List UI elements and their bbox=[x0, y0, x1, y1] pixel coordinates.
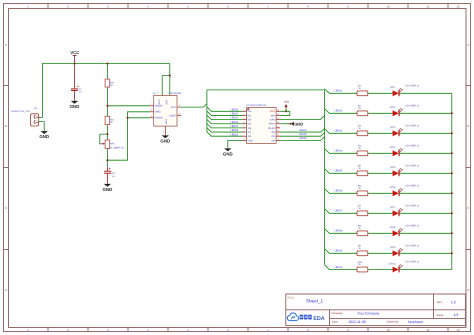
svg-text:LED-0805_R: LED-0805_R bbox=[405, 104, 419, 107]
LED LED5 bbox=[390, 164, 420, 176]
svg-text:R_3386P_EU: R_3386P_EU bbox=[110, 146, 125, 149]
svg-text:11: 11 bbox=[277, 129, 279, 132]
pin U1.4 RST bbox=[166, 92, 169, 105]
ground at U1 bbox=[160, 135, 170, 143]
ground flag at U2 CP1 (rotated) bbox=[291, 121, 303, 126]
wire: LED cathode bus bbox=[451, 93, 453, 269]
svg-text:7: 7 bbox=[151, 103, 152, 106]
power flag VCC bbox=[70, 50, 79, 63]
svg-text:GND: GND bbox=[70, 104, 80, 109]
svg-text:LED4: LED4 bbox=[390, 146, 396, 149]
pin U2.10 O4 bbox=[271, 134, 280, 139]
LED LED6 bbox=[390, 184, 420, 196]
pin U2.11 O9 bbox=[271, 129, 280, 134]
pin U1.6 THRES bbox=[150, 115, 163, 120]
node: cathode bus junction bbox=[451, 232, 453, 234]
svg-text:LED04: LED04 bbox=[231, 133, 239, 136]
node: junction R12/RP1 wiper bbox=[106, 133, 108, 135]
svg-text:LED10: LED10 bbox=[335, 266, 343, 269]
svg-text:B: B bbox=[467, 124, 469, 128]
node: cathode bus junction bbox=[451, 152, 453, 154]
svg-text:U2 CD4017BM-TB: U2 CD4017BM-TB bbox=[246, 104, 266, 107]
wire: row 10 from bundle to resistor R10 bbox=[325, 265, 357, 270]
wire: R6 to LED6 bbox=[368, 192, 392, 194]
svg-text:15: 15 bbox=[277, 113, 279, 116]
svg-text:1.0: 1.0 bbox=[451, 300, 456, 304]
svg-text:Sheet:: Sheet: bbox=[436, 314, 444, 317]
wire: fan branch to U2 pin 2 bbox=[207, 111, 243, 115]
IC U2 CD4017BM-TB bbox=[246, 104, 276, 143]
wire: LED3 to cathode bus bbox=[399, 132, 452, 134]
svg-text:LED09: LED09 bbox=[299, 137, 307, 140]
svg-text:LED-0805_R: LED-0805_R bbox=[405, 204, 419, 207]
svg-text:7: 7 bbox=[243, 134, 244, 137]
svg-text:12: 12 bbox=[456, 4, 460, 8]
node: junction TRIG/THRES bbox=[126, 117, 128, 119]
title block texts bbox=[287, 297, 458, 324]
pin U2.14 CP0 bbox=[270, 117, 280, 122]
wire: LED10 to cathode bus bbox=[399, 269, 452, 271]
svg-text:Date:: Date: bbox=[332, 321, 338, 324]
resistor R6 bbox=[357, 185, 368, 196]
wire: H1 pin1 to bus bbox=[39, 116, 43, 118]
svg-text:LED1: LED1 bbox=[390, 86, 396, 89]
wire: VCC top bus bbox=[42, 64, 169, 118]
svg-text:LED01: LED01 bbox=[335, 90, 343, 93]
svg-text:B: B bbox=[5, 124, 7, 128]
ground at C2 bbox=[103, 184, 113, 192]
wire: U2 output LED05 to bundle bbox=[280, 133, 324, 137]
node: cathode bus junction bbox=[451, 132, 453, 134]
svg-text:GND: GND bbox=[39, 134, 49, 139]
pin U2.2 O1 bbox=[243, 113, 252, 118]
node: bus junction R11 bbox=[106, 62, 108, 64]
pin U1.2 TRIG bbox=[150, 109, 161, 114]
wire: row 3 from bundle to resistor R3 bbox=[325, 129, 357, 134]
svg-text:LED02: LED02 bbox=[231, 113, 239, 116]
svg-text:TRIG: TRIG bbox=[155, 111, 161, 114]
wire: LED7 to cathode bus bbox=[399, 212, 452, 214]
svg-text:10: 10 bbox=[277, 134, 279, 137]
pin U2.4 O2 bbox=[243, 121, 252, 126]
resistor R8 bbox=[357, 225, 368, 236]
wire: MR to VDD net bbox=[280, 111, 290, 115]
wire: fan branch to U2 pin 4 bbox=[207, 119, 243, 123]
wire: RP1 wiper loop bbox=[100, 134, 108, 144]
wire: LED2 to cathode bus bbox=[399, 112, 452, 114]
svg-text:Sheet_1: Sheet_1 bbox=[306, 299, 324, 304]
node: junction RP1/C2/TRIG bbox=[106, 159, 108, 161]
svg-text:LED-0805_R: LED-0805_R bbox=[405, 184, 419, 187]
svg-text:LED3: LED3 bbox=[390, 126, 396, 129]
pin U2.12 O5-9# bbox=[268, 125, 280, 130]
pin U1.8 VCC bbox=[158, 92, 161, 105]
wire: row 2 from bundle to resistor R2 bbox=[325, 109, 357, 114]
svg-text:14: 14 bbox=[277, 117, 279, 120]
wire: row 6 from bundle to resistor R6 bbox=[325, 189, 357, 194]
pin U2.3 O0 bbox=[243, 117, 252, 122]
node: bus junction VCC flag bbox=[73, 62, 75, 64]
wire: RST drop from bus bbox=[169, 64, 171, 96]
svg-text:THRES: THRES bbox=[155, 117, 164, 120]
svg-text:LED02: LED02 bbox=[335, 110, 343, 113]
svg-text:VCC: VCC bbox=[158, 99, 161, 104]
svg-text:R11: R11 bbox=[110, 82, 115, 85]
svg-text:LED01: LED01 bbox=[231, 117, 239, 120]
svg-text:LED08: LED08 bbox=[231, 129, 239, 132]
svg-text:5: 5 bbox=[243, 125, 244, 128]
svg-text:REV: REV bbox=[437, 301, 443, 304]
wire: fan branch to U2 pin 1 bbox=[207, 107, 243, 111]
ground at H1 bbox=[39, 131, 49, 139]
wire: LED1 to cathode bus bbox=[399, 92, 452, 94]
wire: R12 to RP1 bbox=[106, 125, 108, 140]
svg-text:DISCH: DISCH bbox=[155, 105, 163, 108]
svg-text:2: 2 bbox=[243, 113, 244, 116]
svg-text:GND: GND bbox=[165, 119, 168, 125]
svg-text:LED-0805_R: LED-0805_R bbox=[405, 144, 419, 147]
wire: R2 to LED2 bbox=[368, 112, 392, 114]
pin U2.9 O8 bbox=[271, 138, 280, 143]
wire: TRIG-THRES riser bbox=[107, 112, 150, 160]
wire: LED9 to cathode bus bbox=[399, 252, 452, 254]
svg-text:A: A bbox=[467, 43, 469, 47]
wire: bus to R11 bbox=[106, 64, 108, 80]
resistor R2 bbox=[357, 105, 368, 116]
node: bus junction at RST drop bbox=[169, 75, 171, 77]
svg-text:1/1: 1/1 bbox=[454, 313, 459, 317]
svg-text:VSS: VSS bbox=[248, 139, 253, 142]
LED LED4 bbox=[390, 144, 420, 156]
pin U1.1 GND bbox=[163, 119, 168, 136]
svg-text:LED10: LED10 bbox=[388, 262, 396, 265]
connector H1 HDR-F-2.54_1x2 bbox=[11, 107, 39, 126]
svg-text:A: A bbox=[5, 43, 7, 47]
LED LED3 bbox=[390, 124, 420, 136]
LED LED8 bbox=[390, 224, 420, 236]
svg-text:kirachaan: kirachaan bbox=[408, 320, 423, 324]
svg-text:O5-9#: O5-9# bbox=[268, 127, 275, 130]
svg-text:R12: R12 bbox=[110, 118, 115, 121]
svg-text:11: 11 bbox=[426, 328, 429, 332]
svg-text:10: 10 bbox=[386, 328, 390, 332]
svg-text:EDA: EDA bbox=[313, 316, 324, 322]
resistor R5 bbox=[357, 165, 368, 176]
svg-text:1: 1 bbox=[243, 109, 244, 112]
node: cathode bus junction bbox=[451, 112, 453, 114]
svg-text:LED-0805_R: LED-0805_R bbox=[405, 124, 419, 127]
resistor R11 bbox=[105, 79, 115, 87]
svg-text:LED08: LED08 bbox=[335, 230, 343, 233]
LED LED9 bbox=[390, 244, 420, 256]
svg-text:LED06: LED06 bbox=[335, 190, 343, 193]
svg-text:GND: GND bbox=[160, 138, 170, 143]
svg-text:LED07: LED07 bbox=[335, 210, 343, 213]
svg-text:LED-0805_R: LED-0805_R bbox=[405, 164, 419, 167]
pin U2.15 MR bbox=[271, 113, 280, 118]
pin U2.6 O7 bbox=[243, 129, 252, 134]
svg-text:LED6: LED6 bbox=[390, 186, 396, 189]
ground at C1 bbox=[70, 101, 80, 109]
wire: clock top bus bbox=[207, 89, 325, 91]
svg-text:GND: GND bbox=[294, 121, 303, 126]
pin U2.8 VSS bbox=[243, 138, 254, 143]
svg-text:1: 1 bbox=[163, 130, 164, 133]
svg-text:3: 3 bbox=[179, 104, 180, 107]
wire: R5 to LED5 bbox=[368, 172, 392, 174]
svg-text:LED03: LED03 bbox=[231, 121, 239, 124]
svg-text:LED5: LED5 bbox=[390, 166, 396, 169]
pin U1.3 OUT bbox=[171, 104, 181, 109]
pin U2.1 O5 bbox=[243, 109, 252, 114]
wire: R11 to R12 bbox=[106, 87, 108, 116]
svg-text:GND: GND bbox=[103, 187, 113, 192]
svg-text:Company:: Company: bbox=[331, 312, 343, 315]
svg-text:LED-0805_R: LED-0805_R bbox=[405, 261, 419, 264]
svg-text:6: 6 bbox=[151, 115, 152, 118]
wire: DISCH horizontal bbox=[107, 105, 150, 107]
svg-text:9: 9 bbox=[278, 138, 279, 141]
svg-text:8: 8 bbox=[243, 138, 244, 141]
node: cathode bus junction bbox=[451, 252, 453, 254]
svg-text:RP1: RP1 bbox=[110, 143, 115, 146]
node: cathode bus junction bbox=[451, 172, 453, 174]
svg-text:16: 16 bbox=[277, 109, 279, 112]
svg-text:CP0: CP0 bbox=[270, 119, 275, 122]
wire: row 1 from bundle to resistor R1 bbox=[325, 89, 357, 94]
wire: 555 OUT to fan riser bbox=[181, 104, 207, 108]
wire: R8 to LED8 bbox=[368, 232, 392, 234]
wire: VCC pin drop bbox=[162, 76, 170, 96]
svg-text:LED09: LED09 bbox=[335, 250, 343, 253]
svg-text:8: 8 bbox=[158, 92, 159, 95]
svg-text:GND: GND bbox=[223, 151, 233, 156]
LED LED7 bbox=[390, 204, 420, 216]
svg-text:LED-0805_R: LED-0805_R bbox=[405, 244, 419, 247]
svg-text:12: 12 bbox=[456, 328, 460, 332]
pin U2.7 O3 bbox=[243, 134, 252, 139]
ground at U2 VSS bbox=[223, 148, 233, 156]
wire: row 4 from bundle to resistor R4 bbox=[325, 149, 357, 154]
wire: row 5 from bundle to resistor R5 bbox=[325, 169, 357, 174]
pin U1.7 DISCH bbox=[150, 103, 163, 108]
wire: fan branch to U2 pin 5 bbox=[207, 124, 243, 128]
wire: R3 to LED3 bbox=[368, 132, 392, 134]
svg-text:3: 3 bbox=[243, 117, 244, 120]
svg-text:2: 2 bbox=[151, 109, 152, 112]
pin U2.16 VDD bbox=[270, 109, 281, 114]
resistor R10 bbox=[357, 261, 368, 272]
svg-text:LED04: LED04 bbox=[335, 150, 343, 153]
resistor R7 bbox=[357, 205, 368, 216]
svg-text:RST: RST bbox=[166, 99, 169, 104]
svg-text:11: 11 bbox=[426, 4, 429, 8]
svg-text:LED06: LED06 bbox=[231, 108, 239, 111]
wire: CP1 to ground flag bbox=[280, 123, 290, 125]
svg-text:CP1#: CP1# bbox=[269, 123, 276, 126]
svg-text:LED03: LED03 bbox=[335, 130, 343, 133]
wire: U2 output LED10 to bundle bbox=[280, 128, 324, 132]
svg-text:NE555DR: NE555DR bbox=[170, 92, 181, 95]
node: junction R11/R12/DISCH bbox=[106, 105, 108, 107]
svg-text:LED9: LED9 bbox=[390, 246, 396, 249]
pin U2.13 CP1# bbox=[269, 121, 280, 126]
node: junction CP1 ground bbox=[290, 123, 292, 125]
svg-text:CONT: CONT bbox=[169, 115, 176, 118]
wire: R9 to LED9 bbox=[368, 252, 392, 254]
svg-text:LED-0805_R: LED-0805_R bbox=[405, 224, 419, 227]
wire: R4 to LED4 bbox=[368, 152, 392, 154]
wire: row 9 from bundle to resistor R9 bbox=[325, 249, 357, 254]
svg-text:+5V: +5V bbox=[283, 100, 290, 104]
wire: row 8 from bundle to resistor R8 bbox=[325, 229, 357, 234]
svg-text:2022-11-08: 2022-11-08 bbox=[349, 320, 366, 324]
LED LED2 bbox=[390, 104, 420, 116]
svg-text:VDD: VDD bbox=[270, 110, 275, 113]
wire: R7 to LED7 bbox=[368, 212, 392, 214]
wire: U2 output LED09 to bundle bbox=[280, 137, 324, 141]
svg-text:13: 13 bbox=[277, 121, 279, 124]
svg-text:4: 4 bbox=[167, 92, 168, 95]
svg-text:LED07: LED07 bbox=[231, 125, 239, 128]
pin U1.5 CONT bbox=[169, 113, 181, 118]
EasyEDA logo bbox=[287, 313, 324, 322]
node: cathode bus junction bbox=[451, 212, 453, 214]
svg-text:5: 5 bbox=[179, 113, 180, 116]
wire: left fan riser bbox=[206, 90, 208, 132]
svg-text:LED8: LED8 bbox=[390, 226, 396, 229]
wire: LED4 to cathode bus bbox=[399, 152, 452, 154]
LED LED1 bbox=[390, 84, 420, 96]
svg-text:LED2: LED2 bbox=[390, 106, 396, 109]
svg-text:LED7: LED7 bbox=[390, 206, 396, 209]
node: junction VDD/MR bbox=[285, 110, 287, 112]
capacitor C1 bbox=[71, 64, 82, 101]
node: cathode bus junction bbox=[451, 192, 453, 194]
wire: row 7 from bundle to resistor R7 bbox=[325, 209, 357, 214]
power flag +5V bbox=[283, 100, 290, 107]
svg-text:Your Company: Your Company bbox=[357, 312, 380, 316]
svg-text:6: 6 bbox=[243, 129, 244, 132]
wire: right fan riser bbox=[324, 90, 326, 265]
svg-text:LED-0805_R: LED-0805_R bbox=[405, 84, 419, 87]
svg-text:OUT: OUT bbox=[171, 106, 177, 109]
svg-text:LED05: LED05 bbox=[335, 170, 343, 173]
pin U2.5 O6 bbox=[243, 125, 252, 130]
svg-text:10: 10 bbox=[386, 4, 390, 8]
wire: R1 to LED1 bbox=[368, 92, 392, 94]
svg-text:LED05: LED05 bbox=[299, 133, 307, 136]
svg-text:HDR-F-2.54_1x2: HDR-F-2.54_1x2 bbox=[11, 110, 30, 113]
wire: CP0 clock input bbox=[280, 115, 324, 119]
wire: LED6 to cathode bus bbox=[399, 192, 452, 194]
wire: THRES horizontal bbox=[128, 117, 151, 119]
wire: VDD to +5V bbox=[280, 107, 286, 111]
wire: RP1 to C2 bbox=[106, 149, 108, 168]
capacitor C2 bbox=[104, 167, 115, 184]
resistor R9 bbox=[357, 245, 368, 256]
wire: fan branch to U2 pin 3 bbox=[207, 115, 243, 119]
svg-text:LED10: LED10 bbox=[299, 129, 307, 132]
resistor R1 bbox=[357, 85, 368, 96]
svg-text:VCC: VCC bbox=[70, 50, 79, 55]
wire: H1 pin2 to ground bbox=[39, 122, 45, 131]
svg-text:Drawn By:: Drawn By: bbox=[387, 321, 399, 324]
title block bbox=[286, 294, 466, 326]
svg-text:4: 4 bbox=[243, 121, 244, 124]
resistor R3 bbox=[357, 125, 368, 136]
wire: fan branch to U2 pin 7 bbox=[207, 132, 243, 136]
wire: R10 to LED10 bbox=[368, 269, 392, 271]
svg-text:TITLE:: TITLE: bbox=[287, 297, 295, 300]
wire: LED8 to cathode bus bbox=[399, 232, 452, 234]
wire: LED5 to cathode bus bbox=[399, 172, 452, 174]
svg-text:12: 12 bbox=[277, 125, 279, 128]
LED LED10 bbox=[388, 261, 419, 273]
resistor R4 bbox=[357, 145, 368, 156]
svg-text:MR: MR bbox=[271, 114, 275, 117]
wire: U2 VSS to ground bbox=[228, 140, 243, 148]
op-amp U1 NE555DR bbox=[153, 92, 182, 126]
wire: fan branch to U2 pin 6 bbox=[207, 128, 243, 132]
potentiometer RP1 bbox=[101, 140, 125, 149]
resistor R12 bbox=[105, 116, 115, 124]
